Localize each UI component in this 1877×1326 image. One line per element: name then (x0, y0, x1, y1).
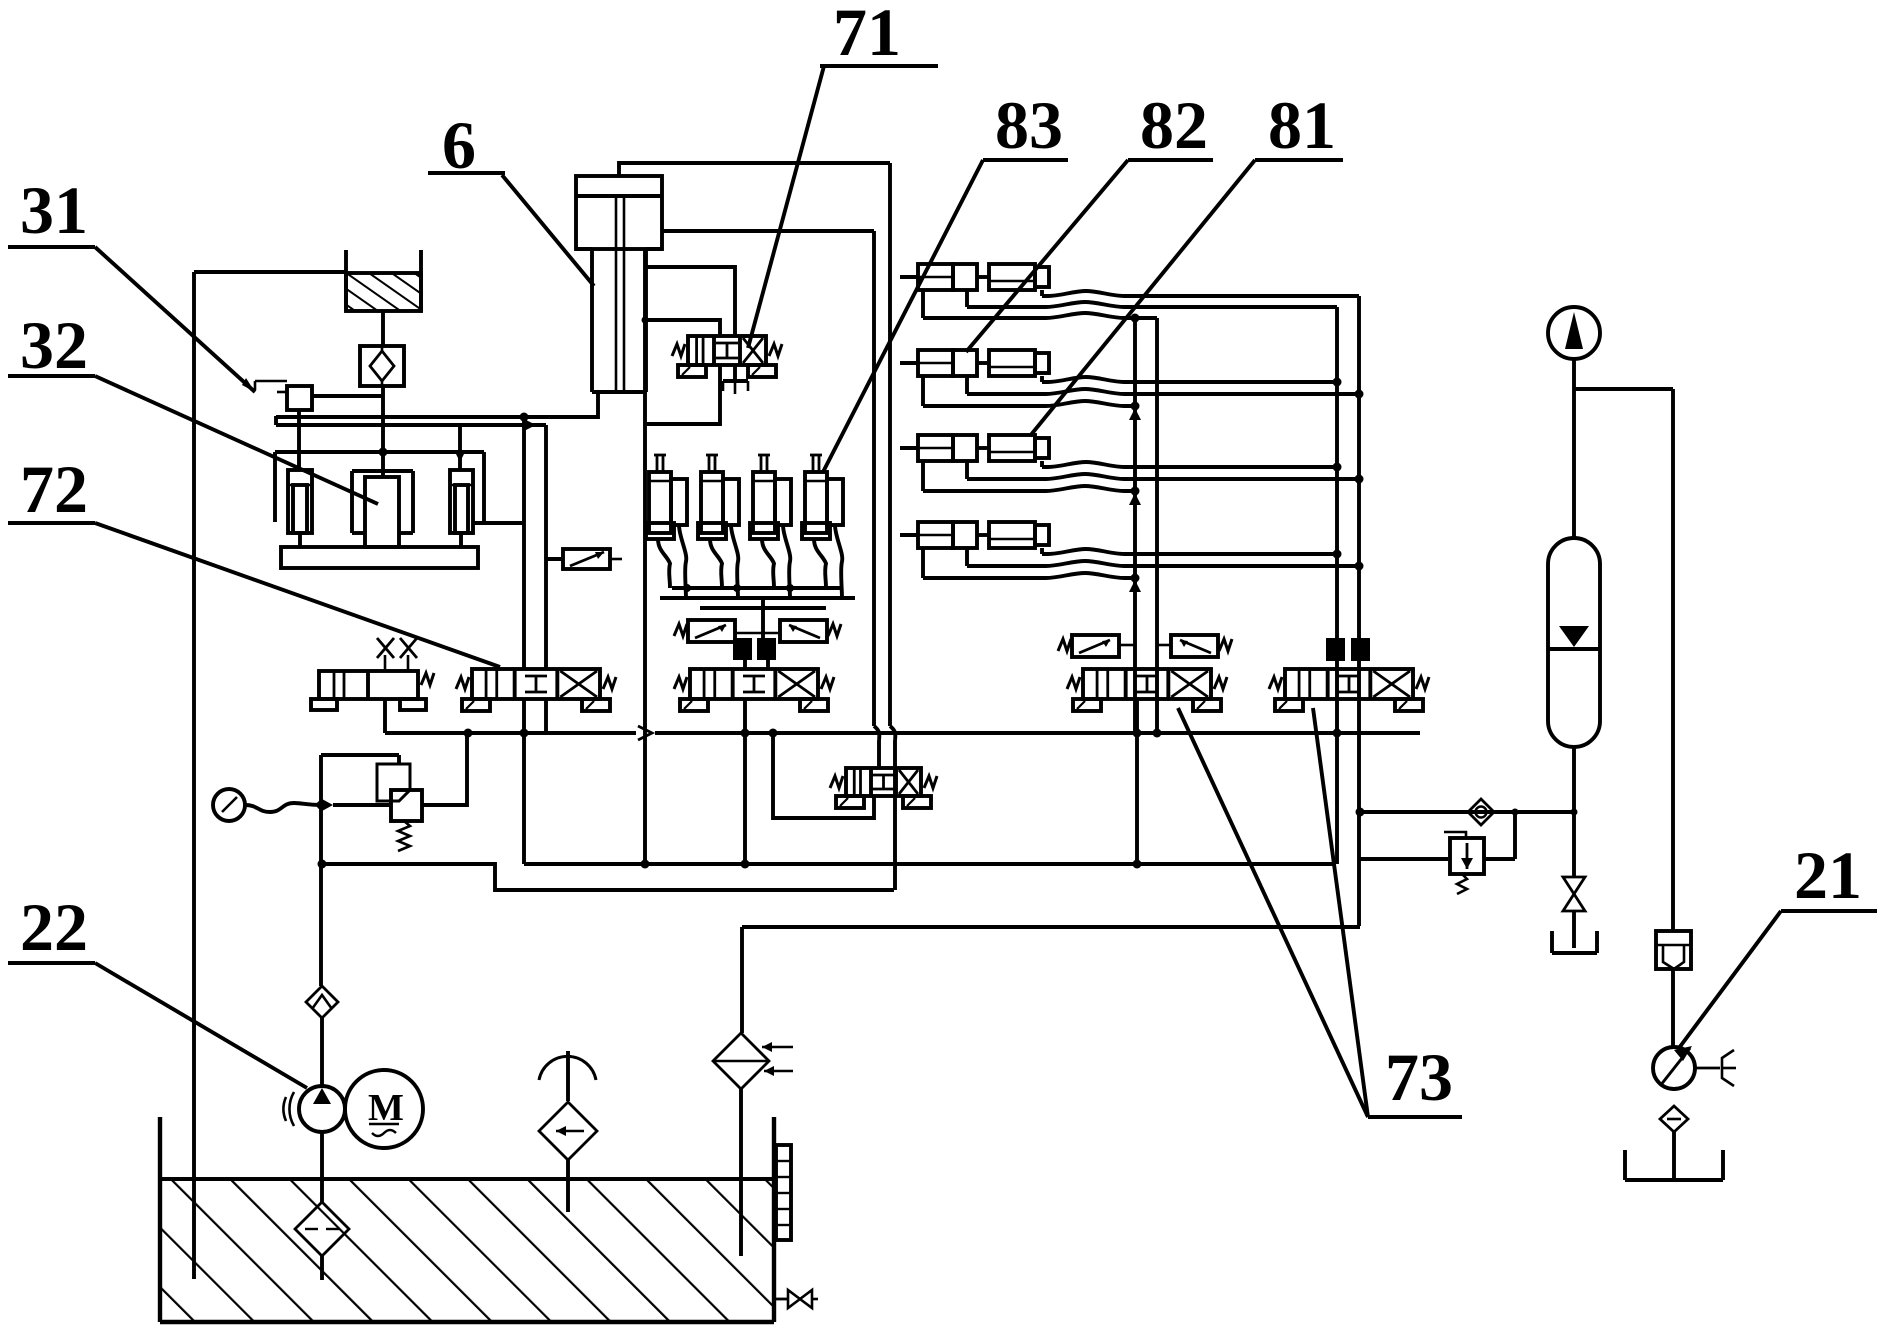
check valve on pump line (306, 986, 338, 1018)
press enclosure (275, 452, 484, 522)
wire v524 (522, 417, 526, 669)
check valve box (360, 346, 404, 386)
relief valve 72-area (377, 764, 422, 851)
arrow on bus (524, 419, 536, 431)
svg-text:72: 72 (20, 451, 88, 527)
sensor row4 wires (1040, 548, 1044, 554)
jog v874 over manifold (874, 726, 879, 740)
wire pump riser (319, 805, 323, 986)
leader 72 (95, 523, 500, 667)
op valve B (72) (456, 669, 616, 711)
motor M (345, 1070, 423, 1148)
wire to hand pump (1671, 969, 1675, 1048)
op valve 71 (672, 336, 782, 377)
wire v874 (872, 231, 876, 726)
wire bus upper run (274, 416, 278, 425)
wire v645 cylinder bottom down (643, 250, 647, 864)
sensor row1 wires (1040, 290, 1044, 296)
wire valve71 bottom port (645, 365, 720, 424)
wire pilots to bus (1119, 644, 1135, 647)
wire relief out to manifold (422, 733, 467, 805)
wire cyl6 bottom left to bus (276, 394, 598, 417)
wire cyl6 rod port to valve 71 (646, 267, 735, 336)
leader 6 (502, 175, 594, 286)
position sensor pair 1 (900, 264, 1049, 290)
leader 81 (1030, 160, 1255, 436)
accumulator (1548, 538, 1600, 747)
wire air filter into tank (739, 1089, 743, 1256)
svg-text:71: 71 (833, 0, 901, 70)
wire v546 (544, 425, 548, 669)
svg-text:83: 83 (995, 87, 1063, 163)
sensor row2 wires (1040, 376, 1044, 382)
return line upper (y=864) (524, 862, 1336, 866)
pilot valve right of E (1171, 635, 1232, 657)
flow control valve (546, 549, 622, 569)
svg-text:32: 32 (20, 307, 88, 383)
pressure sensor circle (1548, 307, 1600, 359)
solenoid pads valve C (733, 633, 780, 660)
hose pair cylinder 2 (710, 539, 722, 588)
node collector (683, 584, 691, 592)
level gauge ladder (776, 1145, 791, 1240)
jog v890 over manifold (890, 726, 895, 740)
position sensor pair 2 (900, 350, 1049, 376)
wire pilot to check line (312, 394, 382, 398)
op valve E (1067, 669, 1227, 711)
valve A (left, with XX) (311, 671, 434, 710)
pilot valve right of block (780, 620, 841, 642)
relief valve enclosure (321, 755, 399, 805)
node 383,452 (379, 448, 388, 457)
cylinder right small (450, 470, 473, 547)
svg-text:22: 22 (20, 889, 88, 965)
leader 32 (95, 376, 378, 504)
right column vertical 1337 (1335, 307, 1339, 864)
middle cylinder 4 (802, 455, 843, 539)
node 1515,812 (1512, 809, 1519, 816)
collector line lower (660, 596, 855, 600)
svg-text:82: 82 (1140, 87, 1208, 163)
middle cylinder 1 (646, 455, 687, 539)
wire breather into tank (566, 1160, 570, 1212)
position sensor pair 4 (900, 522, 1049, 548)
op valve F (1269, 669, 1429, 711)
pilot valve left of block (674, 620, 735, 642)
wire gauge junction to relief (333, 803, 391, 807)
label 6 (428, 107, 505, 183)
leader 31 (95, 247, 255, 392)
node bus 524,417 (520, 413, 529, 422)
wire accumulator to needle valve (1572, 747, 1576, 877)
ball check valve (1468, 799, 1494, 825)
wire v890 lower (893, 740, 897, 890)
breather filter (539, 1102, 597, 1160)
leader 83 (823, 160, 983, 472)
pilot relief valve 31 (255, 381, 312, 410)
wire v524 lower (522, 699, 526, 864)
node 1360,812 (1356, 808, 1365, 817)
leader 22 (95, 963, 307, 1088)
pressure gauge (213, 789, 245, 821)
pilot valve left of E (1058, 635, 1119, 657)
middle cylinder 2 (698, 455, 739, 539)
breather arc (539, 1051, 596, 1101)
wire branch to far right (1574, 387, 1673, 391)
node bus top (1131, 314, 1140, 323)
svg-text:73: 73 (1385, 1039, 1453, 1115)
label 81 (1255, 87, 1343, 163)
wire v890 (888, 163, 892, 726)
leader 21 (1679, 911, 1781, 1048)
arrow down on right cyl feed (454, 450, 466, 462)
node v645/320 (642, 317, 649, 324)
wire left frame vertical (192, 272, 196, 1279)
wire valve C bottom to manifold (743, 699, 747, 733)
sensor row3 wires (1040, 461, 1044, 467)
node manifold junctions (464, 729, 473, 738)
wire bus to right cylinder (458, 423, 462, 470)
drain valve bottom right (774, 1290, 818, 1308)
hose pair cylinder 4 (814, 539, 826, 588)
label 21 (1781, 837, 1877, 913)
wire to drain bracket (1572, 911, 1576, 948)
wire pump suction (320, 1131, 324, 1202)
node return junctions (641, 860, 650, 869)
wire cyl6 upper right port (661, 229, 874, 233)
wire valve A to manifold (383, 699, 387, 733)
right column vertical 1359 (1357, 296, 1361, 926)
wire v874 to valve D (877, 740, 881, 768)
wire bus through valve E (1135, 699, 1139, 864)
svg-text:21: 21 (1794, 837, 1862, 913)
svg-text:31: 31 (20, 172, 88, 248)
manifold hop arrow (638, 726, 652, 740)
label 71 (820, 0, 938, 70)
wire to suction bracket (1672, 1132, 1676, 1178)
middle cylinder 3 (750, 455, 791, 539)
label 83 (983, 87, 1068, 163)
wire U branch to valve D (773, 733, 874, 818)
needle shutoff valve (1563, 877, 1585, 911)
tank walls (160, 1117, 774, 1322)
wire bus lower (276, 423, 546, 427)
line y=859 with reducer (1360, 857, 1448, 861)
label 32 (8, 307, 95, 383)
gauge hose wavy (245, 803, 321, 812)
label 22 (8, 889, 95, 965)
op valve C (674, 669, 834, 711)
solenoid pads valve F (1326, 638, 1345, 661)
leader 82 (966, 160, 1128, 352)
hatched mass block (346, 250, 421, 311)
cylinder 32 centre ram (352, 471, 413, 547)
wire far right vertical (1671, 389, 1675, 931)
check diamond below pump (1660, 1106, 1688, 1132)
bus vertical 1157 (1155, 318, 1159, 733)
relief enclosure right stub (397, 755, 401, 764)
drain bracket (1552, 931, 1597, 953)
wire valve71 top left port (645, 320, 720, 336)
wire sensor to accumulator (1572, 359, 1576, 538)
wire check to pump (320, 1018, 324, 1087)
wire right cyl side link (473, 521, 524, 525)
wire block to check valve (381, 311, 385, 346)
leader 73 to valve E (1178, 708, 1368, 1117)
wire valve B bottom (544, 699, 548, 733)
platform bar (281, 547, 478, 568)
hand pump 21 (1653, 1046, 1736, 1089)
collector line upper (672, 586, 843, 590)
wire pads to valve C (743, 658, 747, 669)
wire cyl6 top port (619, 163, 890, 176)
node accumulator line tap (1571, 809, 1578, 816)
wire check to press (381, 386, 385, 477)
collector line third (700, 606, 826, 610)
node gauge junction (317, 801, 326, 810)
op valve D (830, 768, 937, 808)
XX marks above valve A (377, 638, 417, 671)
wire v742 down to air filter (740, 927, 744, 1033)
wire pilot down (297, 410, 301, 470)
manifold line (385, 731, 636, 735)
tank hatching (162, 1181, 772, 1320)
suction filter (295, 1202, 349, 1256)
leader 71 (748, 66, 824, 348)
pump 22 (283, 1086, 345, 1132)
filter bowl (1656, 931, 1691, 969)
position sensor pair 3 (900, 435, 1049, 461)
label 82 (1128, 87, 1213, 163)
node riser return tap (318, 860, 327, 869)
line y=812 to accumulator (1360, 810, 1574, 814)
wire collector to pilot block (761, 598, 765, 641)
return line to tank filter (y=927) (742, 925, 1360, 929)
cylinder 6 (576, 176, 662, 392)
wire top feed to hatched box (194, 270, 346, 274)
tank fluid surface (160, 1177, 774, 1181)
air filter right (713, 1033, 793, 1089)
label 31 (8, 172, 95, 248)
wire filter tail (320, 1256, 324, 1280)
leader 73 to valve F (1313, 708, 1368, 1117)
drain stub below valve 71 (723, 365, 748, 394)
suction bracket (1625, 1150, 1723, 1180)
return step from relief line (322, 864, 894, 890)
cylinder 31 left (288, 470, 312, 547)
svg-text:81: 81 (1268, 87, 1336, 163)
wire v745 to collector (743, 733, 747, 864)
bus vertical 1135 (1133, 318, 1137, 733)
label 72 (8, 451, 95, 527)
label 73 (1368, 1039, 1462, 1117)
hose pair cylinder 1 (658, 539, 670, 588)
hose pair cylinder 3 (762, 539, 774, 588)
pressure reducing valve 21-area (1444, 832, 1484, 894)
